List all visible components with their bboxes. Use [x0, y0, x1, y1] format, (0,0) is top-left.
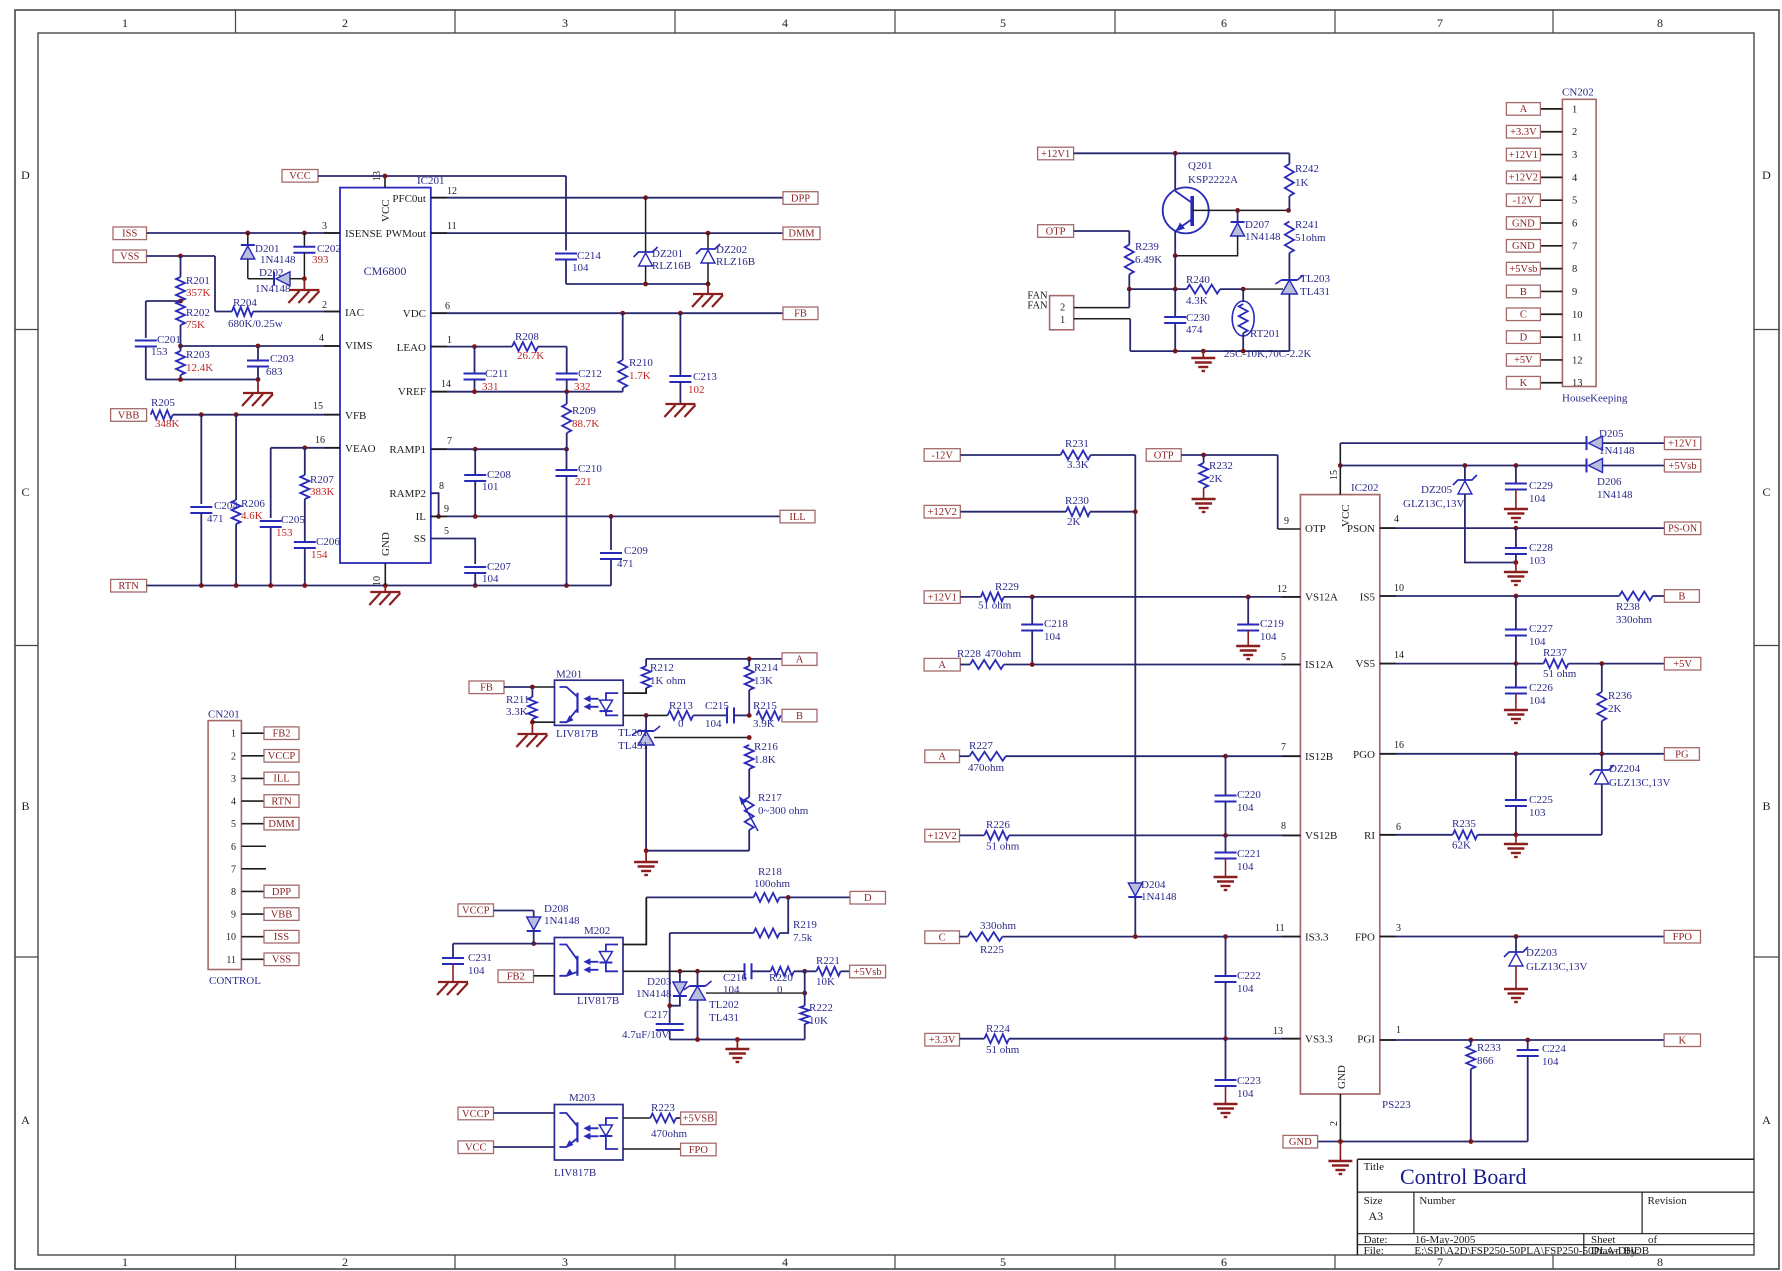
svg-text:8: 8: [231, 887, 236, 898]
svg-text:IC202: IC202: [1351, 482, 1379, 494]
svg-text:C: C: [1762, 485, 1770, 499]
resistor R218 100ohm: [754, 866, 851, 902]
junction VS12A-C218: [1030, 595, 1035, 600]
svg-text:C: C: [21, 485, 29, 499]
svg-text:C224: C224: [1542, 1043, 1566, 1055]
svg-text:7: 7: [1437, 1255, 1443, 1269]
shunt regulator TL201 TL431: [618, 715, 749, 850]
junction VIMS-C203: [256, 344, 261, 349]
svg-text:7: 7: [1437, 16, 1443, 30]
svg-text:10K: 10K: [816, 976, 835, 988]
svg-text:DPP: DPP: [791, 193, 810, 204]
net label +12V1 (IC202): [1664, 437, 1700, 450]
junction rail-DZ201: [643, 282, 648, 287]
svg-text:470ohm: 470ohm: [985, 648, 1022, 660]
svg-text:IS12B: IS12B: [1305, 751, 1333, 763]
svg-text:1N4148: 1N4148: [1599, 445, 1635, 457]
optocoupler M203 LIV817B: [554, 1092, 623, 1179]
ground below C231: [437, 982, 468, 995]
resistor R210 1.7K: [618, 313, 653, 392]
ground below R232: [1192, 499, 1216, 512]
zener diode DZ204 GLZ13C,13V: [1590, 754, 1671, 835]
svg-text:ISENSE: ISENSE: [345, 228, 383, 240]
svg-text:51ohm: 51ohm: [1295, 232, 1326, 244]
svg-text:VCC: VCC: [289, 171, 311, 182]
junction PGO-C225: [1514, 751, 1519, 756]
wire R240 line: [1129, 288, 1243, 290]
wire VFB pin15: [173, 414, 340, 416]
svg-text:Drawn By:: Drawn By:: [1591, 1245, 1640, 1257]
svg-text:5: 5: [1000, 16, 1006, 30]
svg-text:12.4K: 12.4K: [186, 362, 213, 374]
svg-text:OTP: OTP: [1154, 450, 1174, 461]
svg-text:8: 8: [1657, 16, 1663, 30]
wire bottom loop C201-R203-C203: [146, 379, 258, 381]
diode D202 1N4148: [248, 267, 305, 295]
svg-text:CN201: CN201: [208, 709, 240, 721]
svg-text:R203: R203: [186, 349, 210, 361]
wire M201 lower out / B branch: [623, 714, 667, 716]
svg-text:+5Vsb: +5Vsb: [1669, 461, 1697, 472]
svg-text:15: 15: [1329, 470, 1340, 480]
svg-text:FPO: FPO: [689, 1145, 709, 1156]
pin 6 of CN201: [231, 842, 266, 853]
svg-text:B: B: [21, 799, 29, 813]
junction PGO-DZ204: [1599, 751, 1604, 756]
svg-text:R236: R236: [1608, 690, 1632, 702]
svg-text:R230: R230: [1065, 495, 1089, 507]
svg-text:10: 10: [226, 932, 236, 943]
resistor R220 0: [752, 967, 794, 996]
ground below DZ202: [692, 284, 723, 307]
capacitor C221 104: [1215, 835, 1261, 876]
junction D208-C231: [531, 941, 536, 946]
capacitor C214: [555, 250, 601, 284]
svg-text:R228: R228: [957, 648, 981, 660]
net label +5V: [1664, 657, 1700, 670]
svg-text:VDC: VDC: [403, 308, 426, 320]
resistor R206 4.6K: [232, 415, 266, 586]
svg-text:C228: C228: [1529, 542, 1553, 554]
junction IL-C208: [473, 514, 478, 519]
wire RAMP2 pin8: [431, 493, 439, 516]
svg-text:51 ohm: 51 ohm: [986, 1044, 1020, 1056]
junction C203 bottom / gnd: [256, 377, 261, 382]
svg-text:DPP: DPP: [272, 887, 291, 898]
svg-text:6: 6: [445, 301, 450, 312]
resistor R227 470ohm: [960, 740, 1301, 774]
svg-text:8: 8: [439, 481, 444, 492]
junction rail-C230: [1173, 349, 1178, 354]
transistor Q201 KSP2222A: [1163, 153, 1238, 255]
svg-text:348K: 348K: [155, 418, 180, 430]
svg-text:0~300 ohm: 0~300 ohm: [758, 805, 809, 817]
net label C (IS3.3): [925, 931, 960, 944]
junction D203-C217: [667, 1003, 672, 1008]
svg-text:C218: C218: [1044, 618, 1068, 630]
wire M202 lower out line to +5Vsb: [623, 970, 744, 972]
resistor R221 10K: [794, 955, 850, 988]
svg-text:LIV817B: LIV817B: [554, 1167, 596, 1179]
svg-text:6: 6: [1572, 219, 1577, 230]
resistor R219 7.5k: [670, 897, 818, 944]
svg-text:FB2: FB2: [507, 972, 525, 983]
junction OTP-R232: [1201, 453, 1206, 458]
svg-text:4: 4: [1394, 514, 1399, 525]
resistor R212 1K ohm: [642, 662, 687, 688]
svg-text:R239: R239: [1135, 241, 1159, 253]
capacitor C208 101: [464, 449, 511, 516]
svg-text:R218: R218: [758, 866, 782, 878]
svg-text:RAMP1: RAMP1: [389, 444, 426, 456]
svg-text:12: 12: [447, 186, 457, 197]
wire LEAO pin1: [431, 346, 512, 348]
svg-text:4.6K: 4.6K: [241, 510, 263, 522]
svg-text:C214: C214: [577, 250, 601, 262]
svg-text:DZ203: DZ203: [1526, 947, 1558, 959]
junction RI-C225-gnd: [1514, 832, 1519, 837]
capacitor C222 104: [1215, 937, 1261, 1039]
svg-text:7: 7: [1572, 241, 1577, 252]
wire D208 to M202 and C231: [453, 944, 554, 958]
svg-text:C223: C223: [1237, 1075, 1261, 1087]
junction RTN-C205: [268, 583, 273, 588]
ground below IC202 GND: [1328, 1142, 1352, 1175]
svg-text:683: 683: [266, 366, 283, 378]
svg-text:PFC0ut: PFC0ut: [392, 193, 426, 205]
net label ILL: [780, 510, 815, 523]
svg-text:1N4148: 1N4148: [260, 254, 296, 266]
pin 13 of CN202: [1506, 376, 1582, 389]
svg-text:R209: R209: [572, 405, 596, 417]
svg-text:6: 6: [231, 842, 236, 853]
svg-text:C203: C203: [270, 353, 294, 365]
svg-text:R213: R213: [669, 700, 693, 712]
svg-text:2: 2: [231, 751, 236, 762]
junction IS5-C227: [1514, 594, 1519, 599]
junction B-R214-R215: [747, 713, 752, 718]
svg-text:2: 2: [342, 1255, 348, 1269]
ground below fan rail: [1191, 351, 1215, 371]
junction base-D207: [1235, 208, 1240, 213]
svg-text:R226: R226: [986, 819, 1010, 831]
resistor R240 4.3K: [1186, 274, 1220, 307]
wire long vertical OTP sense: [1134, 455, 1136, 883]
svg-text:D202: D202: [259, 267, 283, 279]
svg-text:ISS: ISS: [274, 932, 289, 943]
svg-text:1N4148: 1N4148: [544, 915, 580, 927]
svg-text:D208: D208: [544, 903, 569, 915]
svg-text:+12V1: +12V1: [1509, 150, 1538, 161]
svg-text:4.3K: 4.3K: [1186, 295, 1208, 307]
resistor R228 470ohm: [957, 648, 1022, 669]
junction R211-M201 pin: [530, 720, 535, 725]
svg-text:8: 8: [1572, 264, 1577, 275]
capacitor C227 104: [1505, 596, 1553, 664]
junction M201-TL201: [644, 713, 649, 718]
capacitor C226 104: [1505, 664, 1553, 709]
svg-text:16: 16: [315, 435, 325, 446]
rheostat R217 0~300 ohm: [739, 769, 809, 851]
svg-text:221: 221: [575, 476, 592, 488]
svg-text:3: 3: [562, 16, 568, 30]
svg-text:104: 104: [1529, 493, 1546, 505]
wire R201/R202 to C201: [146, 301, 181, 338]
svg-text:+5Vsb: +5Vsb: [1509, 264, 1537, 275]
junction PWMout-DZ202: [706, 231, 711, 236]
wire M202 top out to R218 line: [623, 897, 754, 944]
svg-text:-12V: -12V: [1513, 195, 1535, 206]
wire VCCP to M203: [494, 1112, 555, 1114]
wire FPO pin3: [1380, 936, 1664, 938]
svg-text:FAN: FAN: [1027, 301, 1048, 312]
svg-text:FPO: FPO: [1355, 931, 1375, 943]
junction VEAO-R207: [302, 445, 307, 450]
svg-text:GLZ13C,13V: GLZ13C,13V: [1403, 498, 1464, 510]
junction R240-RT201: [1241, 287, 1246, 292]
svg-text:VBB: VBB: [271, 909, 293, 920]
svg-text:R220: R220: [769, 972, 793, 984]
junction RTN-C206: [302, 583, 307, 588]
title block: [1357, 1159, 1754, 1257]
svg-text:RLZ16B: RLZ16B: [716, 256, 755, 268]
junction ISS-C202: [302, 231, 307, 236]
svg-text:2: 2: [1572, 127, 1577, 138]
wire IS5 pin10: [1380, 595, 1619, 597]
pin 1 of CN202: [1506, 103, 1577, 116]
net label ISS: [113, 227, 147, 240]
svg-text:1.8K: 1.8K: [754, 754, 776, 766]
svg-text:R205: R205: [151, 397, 175, 409]
svg-text:C227: C227: [1529, 623, 1553, 635]
resistor R233 866: [1466, 1040, 1501, 1142]
svg-text:1N4148: 1N4148: [255, 283, 291, 295]
svg-text:VIMS: VIMS: [345, 340, 373, 352]
ground below C226: [1504, 710, 1528, 723]
thermistor RT201: [1224, 289, 1311, 360]
svg-text:14: 14: [1394, 650, 1404, 661]
svg-text:LIV817B: LIV817B: [577, 995, 619, 1007]
svg-text:+3.3V: +3.3V: [929, 1035, 956, 1046]
svg-text:9: 9: [1284, 516, 1289, 527]
junction ISS-D201: [245, 231, 250, 236]
wire IC202 VCC pin15: [1339, 443, 1341, 495]
svg-text:IS5: IS5: [1360, 592, 1376, 604]
wire IC202 GND pin2 rail: [1318, 1094, 1528, 1142]
junction RTN-C210: [564, 583, 569, 588]
svg-text:CONTROL: CONTROL: [209, 975, 261, 987]
svg-text:IAC: IAC: [345, 307, 364, 319]
svg-text:6.49K: 6.49K: [1135, 254, 1162, 266]
junction VDC-R210: [620, 311, 625, 316]
svg-text:GND: GND: [380, 532, 392, 556]
svg-text:R225: R225: [980, 944, 1004, 956]
svg-text:VSS: VSS: [120, 252, 139, 263]
junction rail-RT201: [1241, 349, 1246, 354]
junction GND-R233: [1468, 1139, 1473, 1144]
svg-text:VCC: VCC: [380, 199, 392, 222]
diode D201 1N4148: [241, 233, 296, 279]
svg-text:D: D: [21, 168, 30, 182]
svg-text:357K: 357K: [186, 287, 211, 299]
svg-text:Title: Title: [1364, 1161, 1385, 1173]
junction IS12A-C218: [1030, 662, 1035, 667]
svg-text:C206: C206: [316, 536, 340, 548]
junction IL-C209: [609, 514, 614, 519]
capacitor C231 104: [442, 952, 492, 981]
svg-text:102: 102: [688, 384, 705, 396]
junction M202-D203: [678, 969, 683, 974]
svg-text:R212: R212: [650, 662, 674, 674]
svg-text:470ohm: 470ohm: [651, 1128, 688, 1140]
svg-text:13K: 13K: [754, 675, 773, 687]
svg-text:1K ohm: 1K ohm: [650, 675, 686, 687]
svg-text:IS3.3: IS3.3: [1305, 931, 1329, 943]
capacitor C201 153: [135, 334, 181, 380]
capacitor C206 154: [294, 536, 341, 586]
svg-text:DZ204: DZ204: [1609, 763, 1641, 775]
resistor R209 88.7K: [562, 392, 599, 450]
junction VCC/pin13: [383, 174, 388, 179]
capacitor C209 471: [600, 516, 648, 585]
net label +5Vsb: [850, 965, 886, 978]
svg-text:SS: SS: [414, 533, 426, 545]
junction VFB-C204: [199, 412, 204, 417]
svg-text:R217: R217: [758, 792, 782, 804]
svg-text:DZ202: DZ202: [716, 244, 747, 256]
ground below C202: [288, 279, 319, 303]
wire VSS net: [147, 256, 216, 312]
svg-text:Control Board: Control Board: [1400, 1164, 1527, 1189]
svg-text:K: K: [1520, 378, 1528, 389]
svg-text:VFB: VFB: [345, 410, 366, 422]
capacitor C210 221: [556, 449, 603, 585]
wire PFC0ut to DPP: [431, 197, 783, 199]
svg-text:D: D: [864, 893, 872, 904]
junction VFB-R206: [234, 412, 239, 417]
junction IS3.3-D204: [1133, 934, 1138, 939]
svg-text:104: 104: [1044, 631, 1061, 643]
wire R211 to M201 lower pin: [532, 721, 554, 723]
svg-text:+12V2: +12V2: [1509, 173, 1538, 184]
wire +5Vsb line: [1340, 465, 1586, 467]
net label +3.3V: [925, 1033, 960, 1046]
net label FB2: [498, 970, 534, 983]
net label FB: [469, 681, 504, 694]
wire VEAO pin16: [271, 448, 340, 518]
svg-text:PSON: PSON: [1347, 523, 1375, 535]
optocoupler M202 LIV817B: [554, 925, 623, 1007]
connector CN201 CONTROL: [208, 709, 261, 988]
svg-text:2: 2: [342, 16, 348, 30]
svg-text:51 ohm: 51 ohm: [1543, 668, 1577, 680]
svg-text:153: 153: [151, 346, 168, 358]
svg-text:75K: 75K: [186, 319, 205, 331]
net label +5Vsb (IC202): [1664, 459, 1700, 472]
wire RAMP1 pin7: [431, 448, 567, 450]
svg-text:1: 1: [122, 1255, 128, 1269]
svg-text:7: 7: [447, 436, 452, 447]
svg-text:104: 104: [1260, 631, 1277, 643]
resistor R205 348K: [151, 397, 180, 430]
svg-text:C222: C222: [1237, 970, 1261, 982]
resistor R226 51 ohm: [960, 819, 1301, 853]
diode D208 1N4148: [527, 903, 580, 944]
resistor R231 3.3K: [960, 438, 1135, 471]
net label DMM: [783, 227, 820, 240]
ground below C228: [1504, 563, 1528, 586]
wire ISS to ISENSE pin3: [147, 232, 341, 234]
svg-text:393: 393: [312, 254, 329, 266]
wire SS pin5 to C207: [431, 539, 475, 565]
svg-text:C213: C213: [693, 371, 717, 383]
svg-text:13: 13: [1273, 1026, 1283, 1037]
svg-text:104: 104: [1529, 695, 1546, 707]
svg-text:100ohm: 100ohm: [754, 878, 791, 890]
svg-text:C207: C207: [487, 561, 511, 573]
net label PG: [1664, 748, 1699, 761]
svg-text:GLZ13C,13V: GLZ13C,13V: [1609, 777, 1670, 789]
svg-text:7: 7: [1281, 742, 1286, 753]
resistor R207 383K: [300, 448, 334, 542]
net label PS-ON: [1664, 522, 1700, 535]
svg-text:R216: R216: [754, 741, 778, 753]
svg-text:6: 6: [1221, 1255, 1227, 1269]
junction IS3.3-C222: [1223, 934, 1228, 939]
junction PSON-C228: [1514, 526, 1519, 531]
svg-text:5: 5: [1572, 196, 1577, 207]
svg-text:R204: R204: [233, 297, 257, 309]
junction emitter-R240: [1173, 287, 1178, 292]
svg-text:C215: C215: [705, 700, 729, 712]
net label A (IS12B): [925, 750, 960, 763]
optocoupler M201 LIV817B: [555, 669, 624, 741]
svg-text:104: 104: [1237, 861, 1254, 873]
svg-text:C209: C209: [624, 545, 648, 557]
svg-text:C229: C229: [1529, 480, 1553, 492]
svg-text:FB2: FB2: [272, 729, 290, 740]
resistor R204 680K/0.25w on IAC: [215, 297, 340, 330]
svg-text:11: 11: [447, 221, 457, 232]
svg-text:RI: RI: [1364, 830, 1375, 842]
resistor R213 0: [668, 700, 694, 730]
junction R201-R202-C201: [178, 299, 183, 304]
svg-text:PWMout: PWMout: [386, 228, 426, 240]
svg-text:PG: PG: [1675, 749, 1689, 760]
svg-text:R237: R237: [1543, 647, 1567, 659]
resistor R203 12.4K: [176, 346, 213, 380]
net label OTP (fan): [1038, 225, 1074, 238]
svg-text:+12V1: +12V1: [1668, 439, 1697, 450]
svg-text:PS-ON: PS-ON: [1668, 524, 1697, 535]
pin 6 of CN202: [1506, 217, 1577, 230]
svg-text:88.7K: 88.7K: [572, 418, 599, 430]
svg-text:RTN: RTN: [118, 581, 139, 592]
junction VS5-C226: [1514, 661, 1519, 666]
svg-text:TL202: TL202: [709, 999, 739, 1011]
junction C228-DZ205-gnd: [1514, 560, 1519, 565]
svg-text:3: 3: [1572, 150, 1577, 161]
ground below R211: [516, 722, 547, 747]
svg-text:3.9K: 3.9K: [753, 718, 775, 730]
pin 7 of CN201: [231, 864, 266, 875]
wire emitter down: [1174, 256, 1176, 289]
svg-text:51 ohm: 51 ohm: [978, 600, 1012, 612]
junction VSS-R201: [178, 254, 183, 259]
svg-text:13: 13: [1572, 378, 1583, 389]
svg-text:-12V: -12V: [931, 450, 953, 461]
svg-text:470ohm: 470ohm: [968, 762, 1005, 774]
